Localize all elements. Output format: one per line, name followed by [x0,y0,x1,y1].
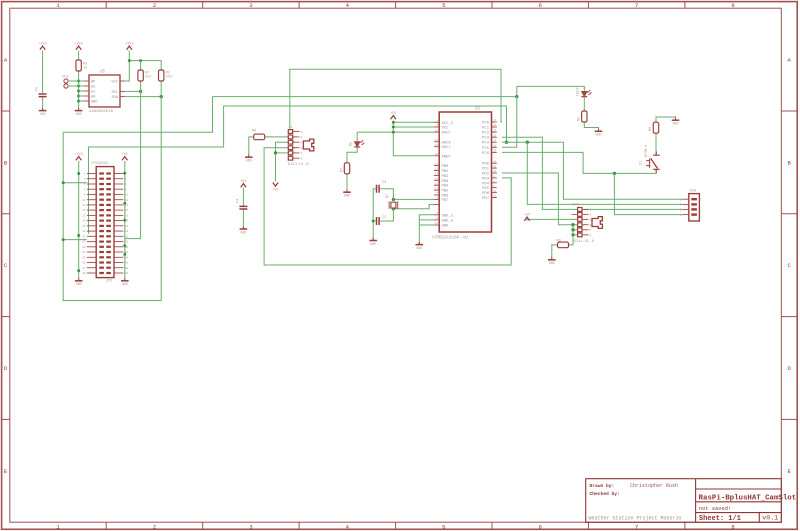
svg-text:+5V: +5V [240,180,247,184]
svg-text:17: 17 [82,215,86,218]
svg-text:PC4: PC4 [482,142,490,146]
svg-text:R6: R6 [649,127,653,131]
svg-text:VCC: VCC [112,81,118,85]
svg-text:19: 19 [82,220,86,223]
svg-text:SV3: SV3 [690,190,698,194]
svg-text:23: 23 [493,119,497,122]
svg-text:18: 18 [125,215,129,218]
svg-text:27: 27 [493,139,497,142]
svg-text:not saved!: not saved! [699,506,731,512]
svg-text:C5: C5 [36,87,40,91]
svg-text:12: 12 [435,163,439,166]
svg-text:PC0: PC0 [482,122,490,126]
svg-text:VCC: VCC [442,127,450,131]
svg-text:GND: GND [40,112,46,116]
svg-text:A1: A1 [91,91,95,95]
svg-text:Christopher Rush: Christopher Rush [630,483,678,489]
svg-text:C2: C2 [382,216,386,220]
svg-text:PB5: PB5 [442,190,450,194]
svg-text:4: 4 [301,147,303,150]
svg-text:24: 24 [493,124,497,127]
svg-text:GND: GND [91,101,97,105]
svg-text:AVCC: AVCC [442,132,452,136]
svg-text:14: 14 [435,173,439,176]
svg-text:SCL: SCL [112,91,118,95]
svg-text:PD0: PD0 [482,163,490,167]
svg-text:6: 6 [590,234,592,237]
svg-text:SDA: SDA [112,96,119,100]
svg-text:32: 32 [493,170,497,173]
svg-text:26: 26 [125,235,129,238]
svg-text:WP: WP [91,81,95,85]
svg-text:29: 29 [82,246,86,249]
svg-text:11: 11 [493,195,497,198]
svg-text:29: 29 [493,150,497,153]
svg-text:ADC7: ADC7 [442,146,451,150]
svg-text:PD3: PD3 [482,177,490,181]
svg-text:16: 16 [435,182,439,185]
svg-text:PD1: PD1 [482,168,490,172]
svg-text:+5V: +5V [524,213,531,217]
svg-text:3: 3 [249,2,252,9]
svg-text:DTSM-6: DTSM-6 [645,145,649,157]
svg-text:A0: A0 [91,96,95,100]
svg-text:35: 35 [82,262,86,265]
svg-text:23: 23 [82,230,86,233]
svg-text:GND: GND [596,133,602,137]
svg-text:PD4: PD4 [482,182,490,186]
svg-text:5: 5 [301,152,303,155]
svg-text:26: 26 [493,134,497,137]
svg-text:RJ11-OL-0: RJ11-OL-0 [574,240,595,244]
svg-text:R9: R9 [557,240,561,244]
svg-text:22: 22 [125,225,129,228]
svg-text:5: 5 [442,2,445,9]
svg-text:2: 2 [153,2,156,9]
svg-text:28: 28 [125,241,129,244]
svg-text:21: 21 [82,225,86,228]
svg-text:RJ11-OL-0: RJ11-OL-0 [288,163,309,167]
svg-text:31: 31 [82,251,86,254]
svg-text:6: 6 [539,523,542,530]
svg-text:AREF: AREF [442,155,452,159]
svg-text:U2: U2 [475,108,481,112]
svg-text:GND_2: GND_2 [442,214,454,218]
svg-text:PC6: PC6 [482,152,490,156]
svg-text:GND: GND [76,112,82,116]
svg-text:PD7: PD7 [482,197,489,201]
svg-text:ADC6: ADC6 [442,141,452,145]
svg-text:GND: GND [416,246,422,250]
svg-text:Checked by:: Checked by: [590,491,620,497]
svg-text:GND: GND [673,122,679,126]
svg-text:PC1: PC1 [482,127,490,131]
svg-text:ATMEGA328P-AU: ATMEGA328P-AU [432,235,468,241]
svg-text:7: 7 [635,2,638,9]
svg-text:8: 8 [731,523,734,530]
svg-text:JP2: JP2 [106,280,112,284]
svg-text:PIN20X2: PIN20X2 [92,162,109,166]
svg-text:5: 5 [442,523,445,530]
svg-text:LED2: LED2 [577,87,581,96]
svg-text:13: 13 [435,168,439,171]
svg-text:2k2: 2k2 [145,75,151,80]
svg-text:D5: D5 [350,142,354,146]
svg-text:+5V: +5V [390,112,397,116]
svg-text:PD5: PD5 [482,187,490,191]
svg-text:27: 27 [82,241,86,244]
svg-text:13: 13 [82,204,86,207]
svg-text:U5: U5 [100,71,106,75]
svg-text:PB1: PB1 [442,170,450,174]
svg-text:2k2: 2k2 [166,75,172,80]
svg-text:24: 24 [125,230,129,233]
svg-text:2: 2 [301,136,303,139]
svg-text:6: 6 [539,2,542,9]
svg-text:5: 5 [590,229,592,232]
svg-text:18: 18 [435,129,439,132]
svg-text:PC3: PC3 [482,137,490,141]
svg-text:20: 20 [435,153,439,156]
svg-text:8: 8 [731,2,734,9]
svg-text:7: 7 [635,523,638,530]
svg-text:+3V3: +3V3 [75,153,83,157]
svg-text:10: 10 [493,190,497,193]
svg-text:C4: C4 [237,199,241,203]
svg-text:Weather Station Project MakerJ: Weather Station Project MakerJo [589,515,682,521]
svg-text:12: 12 [125,199,129,202]
svg-text:RasPi-BplusHAT_CamSlot: RasPi-BplusHAT_CamSlot [699,494,797,502]
svg-text:GND: GND [122,282,128,286]
svg-text:37: 37 [82,267,86,270]
svg-text:GND: GND [442,225,450,229]
svg-text:31: 31 [493,165,497,168]
svg-text:PB3: PB3 [442,180,450,184]
svg-text:A2: A2 [91,86,95,90]
svg-text:15: 15 [435,178,439,181]
svg-text:+3V3: +3V3 [125,42,133,46]
svg-text:1k: 1k [83,66,87,71]
svg-text:34: 34 [125,256,129,259]
svg-text:16: 16 [125,209,129,212]
svg-text:PC2: PC2 [482,132,490,136]
svg-text:PD2: PD2 [482,173,490,177]
svg-text:Drawn by:: Drawn by: [590,483,615,489]
svg-text:6: 6 [301,158,303,161]
svg-text:+5V: +5V [122,153,129,157]
svg-text:2: 2 [153,523,156,530]
svg-text:38: 38 [125,267,129,270]
svg-text:PB0: PB0 [442,165,450,169]
svg-text:Q1: Q1 [386,194,390,198]
svg-text:3: 3 [590,219,592,222]
svg-text:14: 14 [125,204,129,207]
svg-text:PB7: PB7 [442,199,449,203]
svg-text:30: 30 [493,160,497,163]
svg-text:17: 17 [435,187,439,190]
svg-text:+5V: +5V [272,188,279,192]
svg-text:GND: GND [76,282,82,286]
svg-text:VCC_2: VCC_2 [442,122,454,126]
svg-text:1: 1 [590,209,592,212]
svg-text:25: 25 [82,235,86,238]
svg-text:19: 19 [435,139,439,142]
svg-text:32: 32 [125,251,129,254]
svg-text:25: 25 [493,129,497,132]
svg-text:22: 22 [435,144,439,147]
svg-text:v0.1: v0.1 [762,515,778,522]
svg-text:3: 3 [301,142,303,145]
svg-text:R5: R5 [578,117,582,121]
svg-text:33: 33 [82,256,86,259]
svg-text:20: 20 [125,220,129,223]
svg-text:11: 11 [82,199,86,202]
svg-text:4: 4 [590,224,592,227]
svg-text:GND: GND [246,159,252,163]
svg-text:+3V3: +3V3 [75,42,83,46]
svg-text:PD6: PD6 [482,192,490,196]
svg-text:GND: GND [370,242,376,246]
svg-text:Sheet: 1/1: Sheet: 1/1 [699,515,741,523]
svg-text:GND: GND [344,194,350,198]
svg-text:3: 3 [249,523,252,530]
svg-text:40: 40 [125,272,129,275]
svg-text:S1: S1 [640,161,644,165]
svg-text:+3V3: +3V3 [39,42,47,46]
svg-text:24AA025E48: 24AA025E48 [89,110,114,114]
svg-text:R7: R7 [341,168,345,172]
svg-text:R4: R4 [252,130,256,134]
svg-text:1: 1 [301,131,303,134]
svg-text:GND: GND [549,261,555,265]
svg-text:GND: GND [240,230,246,234]
svg-text:PB4: PB4 [442,185,450,189]
svg-text:36: 36 [125,262,129,265]
svg-text:2: 2 [590,214,592,217]
svg-text:PB2: PB2 [442,175,450,179]
svg-text:C3: C3 [382,181,386,185]
svg-text:PC5: PC5 [482,147,490,151]
svg-text:10: 10 [125,194,129,197]
svg-text:28: 28 [493,145,497,148]
svg-text:21: 21 [435,222,439,225]
svg-text:39: 39 [82,272,86,275]
svg-text:GND_3: GND_3 [442,219,454,223]
svg-text:30: 30 [125,246,129,249]
svg-text:15: 15 [82,209,86,212]
svg-text:PB6: PB6 [442,195,450,199]
